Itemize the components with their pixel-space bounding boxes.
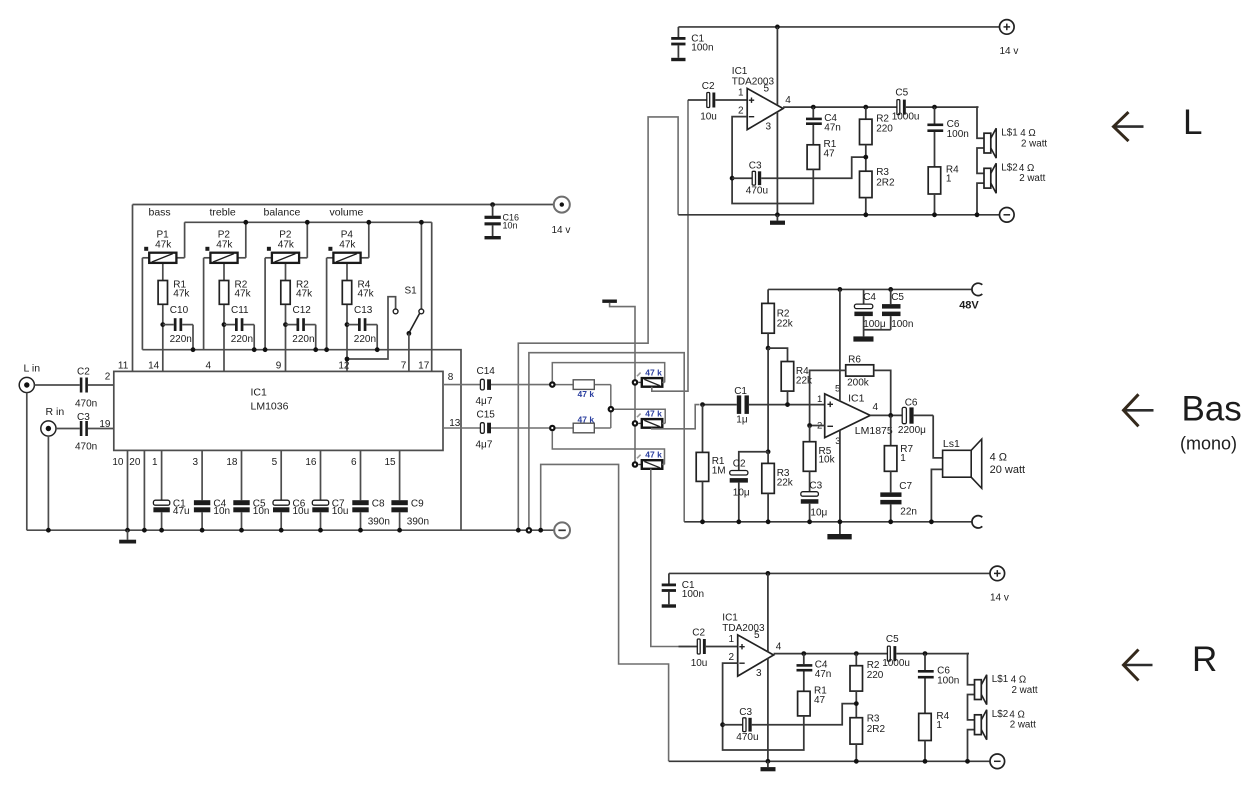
- svg-text:3: 3: [193, 457, 199, 468]
- svg-text:47k: 47k: [339, 239, 356, 250]
- svg-text:C9: C9: [411, 499, 424, 510]
- svg-text:C7: C7: [899, 481, 912, 492]
- svg-text:LM1875: LM1875: [855, 425, 893, 437]
- svg-text:10μ: 10μ: [733, 488, 750, 499]
- svg-text:C1: C1: [734, 386, 747, 397]
- svg-text:C5: C5: [891, 292, 904, 303]
- svg-text:48V: 48V: [959, 299, 979, 311]
- svg-text:100μ: 100μ: [863, 319, 886, 330]
- svg-text:1M: 1M: [712, 465, 726, 476]
- svg-text:20 watt: 20 watt: [990, 464, 1025, 476]
- svg-text:1: 1: [900, 453, 906, 464]
- svg-text:200k: 200k: [847, 378, 870, 389]
- svg-text:R6: R6: [848, 354, 861, 365]
- svg-text:1: 1: [946, 173, 952, 184]
- svg-text:20: 20: [129, 457, 141, 468]
- svg-text:4: 4: [205, 361, 211, 372]
- svg-text:47k: 47k: [278, 239, 295, 250]
- svg-text:19: 19: [99, 419, 111, 430]
- svg-text:47u: 47u: [173, 506, 190, 517]
- svg-text:47n: 47n: [824, 122, 841, 133]
- svg-text:15: 15: [384, 457, 396, 468]
- svg-text:47k: 47k: [296, 288, 313, 299]
- svg-text:22k: 22k: [777, 477, 794, 488]
- svg-text:16: 16: [305, 457, 317, 468]
- svg-text:10μ: 10μ: [810, 508, 827, 519]
- svg-text:47: 47: [824, 149, 836, 160]
- svg-text:L$2: L$2: [1001, 163, 1017, 174]
- svg-text:C2: C2: [702, 81, 715, 92]
- svg-text:18: 18: [226, 457, 238, 468]
- svg-text:C12: C12: [293, 305, 312, 316]
- svg-text:Ls1: Ls1: [943, 438, 960, 450]
- svg-text:220n: 220n: [170, 334, 192, 345]
- svg-text:220n: 220n: [354, 334, 376, 345]
- svg-text:2 watt: 2 watt: [1019, 173, 1045, 184]
- svg-text:100n: 100n: [947, 129, 969, 140]
- svg-text:R3: R3: [876, 167, 889, 178]
- svg-text:C11: C11: [231, 305, 249, 316]
- svg-text:C3: C3: [809, 481, 822, 492]
- svg-text:2 watt: 2 watt: [1021, 138, 1047, 149]
- svg-text:1: 1: [152, 457, 158, 468]
- svg-text:1μ: 1μ: [736, 415, 748, 426]
- svg-text:balance: balance: [264, 206, 301, 218]
- svg-text:47 k: 47 k: [578, 414, 595, 424]
- svg-text:470n: 470n: [75, 441, 97, 452]
- svg-text:220n: 220n: [292, 334, 314, 345]
- svg-text:220: 220: [876, 123, 893, 134]
- svg-text:220n: 220n: [231, 334, 253, 345]
- svg-text:5: 5: [764, 83, 770, 94]
- svg-text:C6: C6: [905, 398, 918, 409]
- svg-text:4: 4: [873, 402, 879, 413]
- svg-text:10u: 10u: [700, 112, 717, 123]
- svg-text:S1: S1: [405, 285, 418, 296]
- svg-text:47k: 47k: [358, 288, 375, 299]
- svg-text:17: 17: [418, 361, 430, 372]
- svg-text:bass: bass: [149, 206, 171, 218]
- svg-text:4 Ω: 4 Ω: [990, 452, 1007, 464]
- svg-text:2200μ: 2200μ: [898, 425, 926, 436]
- svg-text:C3: C3: [749, 161, 762, 172]
- svg-text:1000u: 1000u: [892, 112, 920, 123]
- svg-text:47k: 47k: [173, 288, 190, 299]
- svg-text:22n: 22n: [900, 507, 917, 518]
- svg-text:IC1: IC1: [848, 393, 865, 405]
- svg-text:2: 2: [738, 105, 744, 116]
- svg-text:L in: L in: [24, 362, 41, 374]
- svg-text:47k: 47k: [155, 239, 172, 250]
- svg-text:3: 3: [766, 121, 772, 132]
- svg-text:10u: 10u: [293, 506, 310, 517]
- svg-text:C3: C3: [77, 412, 90, 423]
- svg-text:LM1036: LM1036: [251, 400, 289, 412]
- svg-text:1: 1: [738, 88, 744, 99]
- svg-text:47 k: 47 k: [645, 409, 662, 419]
- svg-text:C2: C2: [733, 459, 746, 470]
- svg-text:(mono): (mono): [1180, 434, 1237, 454]
- svg-text:IC1: IC1: [251, 386, 268, 398]
- svg-text:14 v: 14 v: [1000, 46, 1019, 57]
- svg-text:L$1: L$1: [1001, 128, 1017, 139]
- svg-text:7: 7: [401, 361, 407, 372]
- svg-text:R in: R in: [46, 406, 65, 418]
- svg-text:4μ7: 4μ7: [476, 396, 493, 407]
- svg-text:L: L: [1183, 103, 1202, 142]
- svg-text:volume: volume: [330, 206, 364, 218]
- svg-text:10k: 10k: [819, 455, 836, 466]
- svg-text:4: 4: [785, 95, 791, 106]
- svg-text:10n: 10n: [253, 506, 270, 517]
- svg-text:390n: 390n: [368, 517, 390, 528]
- svg-text:10: 10: [112, 457, 124, 468]
- svg-text:10u: 10u: [332, 506, 349, 517]
- svg-text:Bas: Bas: [1182, 390, 1242, 429]
- svg-text:treble: treble: [210, 206, 236, 218]
- svg-text:2: 2: [105, 371, 111, 382]
- svg-text:14: 14: [148, 361, 160, 372]
- svg-text:47k: 47k: [235, 288, 252, 299]
- svg-text:47 k: 47 k: [645, 368, 662, 378]
- svg-text:C14: C14: [477, 366, 496, 377]
- svg-text:9: 9: [276, 361, 282, 372]
- svg-text:470n: 470n: [75, 399, 97, 410]
- svg-text:10n: 10n: [503, 220, 518, 230]
- svg-text:IC1: IC1: [732, 66, 748, 77]
- svg-text:47 k: 47 k: [645, 450, 662, 460]
- svg-text:6: 6: [351, 457, 357, 468]
- svg-text:R: R: [1192, 640, 1217, 679]
- svg-text:8: 8: [448, 372, 454, 383]
- svg-text:10n: 10n: [213, 506, 230, 517]
- svg-text:11: 11: [118, 361, 129, 372]
- svg-text:14 v: 14 v: [552, 225, 571, 236]
- svg-text:C5: C5: [895, 87, 908, 98]
- svg-text:2R2: 2R2: [876, 177, 895, 188]
- svg-text:100n: 100n: [891, 319, 913, 330]
- svg-text:47 k: 47 k: [578, 389, 595, 399]
- svg-text:390n: 390n: [407, 517, 429, 528]
- svg-text:C10: C10: [170, 305, 189, 316]
- svg-text:C13: C13: [354, 305, 373, 316]
- svg-text:4μ7: 4μ7: [476, 440, 493, 451]
- svg-text:470u: 470u: [746, 186, 768, 197]
- svg-text:C15: C15: [477, 410, 496, 421]
- svg-text:C2: C2: [77, 367, 90, 378]
- svg-text:C8: C8: [372, 499, 385, 510]
- svg-text:22k: 22k: [777, 318, 794, 329]
- svg-text:12: 12: [338, 361, 350, 372]
- svg-text:13: 13: [449, 418, 461, 429]
- svg-text:47k: 47k: [216, 239, 233, 250]
- svg-text:1: 1: [817, 394, 822, 405]
- svg-text:C4: C4: [863, 292, 876, 303]
- svg-text:5: 5: [272, 457, 278, 468]
- svg-text:100n: 100n: [691, 42, 713, 53]
